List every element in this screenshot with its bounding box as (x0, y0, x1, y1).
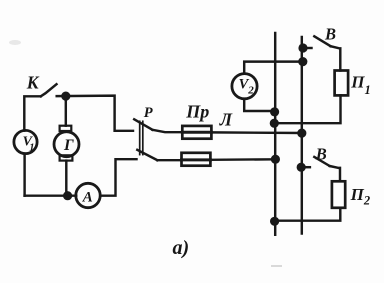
wire: V1 bottom to bottom rail (23, 154, 25, 196)
bus 2 vertical wire (301, 37, 303, 234)
wire: line L upper conductor to bus 2 (211, 131, 301, 134)
load P1 resistor body (335, 71, 349, 96)
load P2 resistor body (332, 181, 345, 208)
contactor P lower blade (137, 150, 157, 160)
node: P1 return junction on bus 1 (270, 119, 279, 128)
generator G lower brush (60, 155, 73, 160)
node A: junction on top rail (61, 92, 70, 101)
fuse FU1 (Pr) body (182, 126, 211, 139)
wire: V2 bottom to bus 1 (244, 99, 274, 111)
node: switch B1 junction on bus 2 (298, 43, 307, 52)
svg-text:Г: Г (63, 137, 74, 154)
wire: ammeter right, up and to lower contact of P (100, 159, 136, 196)
contactor P mechanical link (139, 121, 141, 154)
node: line L junction on bus 1 (271, 155, 280, 164)
node: P2 return junction on bus 1 (270, 217, 279, 226)
wire: generator bottom to node B (65, 161, 67, 192)
wire: B1 fixed contact stub (303, 47, 312, 49)
svg-text:Пр: Пр (185, 102, 209, 122)
wire: P upper blade to fuse FU1 (153, 130, 183, 132)
svg-text:Р: Р (144, 105, 153, 121)
node: line L junction on bus 2 (297, 129, 306, 138)
node: V2 bottom junction on bus 1 (270, 107, 279, 116)
ammeter A (76, 183, 100, 207)
generator G upper brush (60, 126, 72, 131)
svg-text:В: В (324, 24, 336, 43)
voltmeter V2 (232, 74, 257, 99)
wire: B2 fixed contact stub (301, 166, 310, 168)
wire: V2 top to bus 2 (244, 62, 303, 74)
wire: P2 bottom back to bus 1 (275, 208, 341, 221)
switch B2 blade (314, 157, 329, 166)
switch B1 blade (314, 36, 330, 46)
wire: node down to generator brush (65, 96, 67, 126)
wire: node stub to right corner of top rail (57, 96, 133, 131)
svg-text:В: В (315, 145, 327, 164)
bus 1 vertical wire (274, 33, 276, 235)
wire: P lower blade to fuse FU2 (157, 159, 181, 161)
node: V2 top junction on bus 2 (298, 57, 307, 66)
wire: B2 to load P2 (330, 166, 340, 181)
wire: left circuit top-left corner and run to switch K (24, 96, 41, 130)
switch K blade (41, 84, 57, 96)
smudge bottom-right dash (271, 265, 282, 267)
wire: bottom rail left of ammeter (25, 194, 77, 196)
voltmeter V1 (14, 130, 37, 153)
wire: line L lower conductor to bus 1 (210, 158, 275, 161)
node B: junction on bottom rail (63, 191, 72, 200)
fuse FU1 element wire (182, 131, 211, 134)
svg-text:1: 1 (29, 143, 34, 154)
generator G circle (54, 132, 79, 157)
smudge top-left (9, 40, 21, 45)
fuse FU2 element wire (182, 158, 211, 161)
svg-text:а): а) (173, 237, 190, 259)
svg-text:Л: Л (219, 109, 233, 129)
fuse FU2 (Pr) body (182, 153, 211, 166)
svg-text:К: К (26, 72, 40, 92)
svg-text:А: А (82, 190, 93, 206)
contactor P upper blade (134, 119, 152, 130)
wire: P1 bottom back to bus 1 (274, 95, 340, 123)
node: switch B2 junction on bus 2 (297, 163, 306, 172)
wire: B1 to load P1 (331, 46, 341, 70)
